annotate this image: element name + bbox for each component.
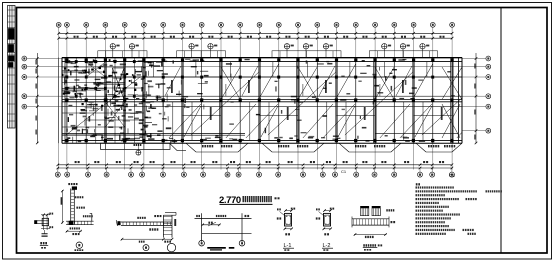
left section detail (66, 58, 68, 144)
protrusion slant + drain circle (170, 143, 178, 150)
right axis bubbles (486, 56, 491, 61)
left vertical dimension line (36, 53, 38, 144)
party walls (142, 58, 144, 144)
corridor walls (62, 133, 245, 135)
notes block (416, 183, 420, 185)
top crossed circles (110, 44, 115, 49)
horizontal grid lines (27, 58, 486, 60)
left title strip (8, 6, 16, 129)
L-2 section (324, 213, 331, 226)
more unit diagonals (184, 106, 201, 137)
vertical grid lines (58, 27, 60, 57)
detail 2 (beam plan) (117, 221, 120, 225)
right end X (442, 67, 462, 99)
top dimension band (59, 32, 452, 34)
detail F (slab rebar section) (361, 206, 369, 215)
bottom dimension band (58, 164, 452, 166)
svg-text:C1: C1 (341, 169, 347, 174)
unit diagonals (191, 72, 259, 135)
detail 1 (L wall section) (68, 183, 77, 185)
detail A (small joint) (35, 220, 49, 222)
detail D (beam elevation) (201, 213, 203, 242)
plan annotations (64, 59, 455, 146)
columns (black) (65, 58, 68, 61)
top balcony boxes (98, 51, 147, 58)
title column separator (500, 8, 502, 254)
left section blobs (66, 60, 69, 63)
vertical dim texts in rooms (210, 107, 212, 120)
bottom bay trapezoids (186, 143, 196, 152)
bottom-left protrusion (101, 143, 171, 149)
short wall stubs (146, 106, 148, 112)
unit interior walls (162, 62, 164, 141)
left axis bubbles (22, 56, 27, 61)
svg-text:C3: C3 (449, 173, 455, 178)
beam labels below plan (202, 145, 213, 147)
plan outline (62, 57, 462, 59)
L-1 section (285, 213, 292, 226)
right vertical dimension line (475, 53, 477, 144)
bottom axis bubbles (57, 168, 59, 172)
main interior beams (62, 76, 462, 78)
top axis bubbles (56, 22, 61, 27)
